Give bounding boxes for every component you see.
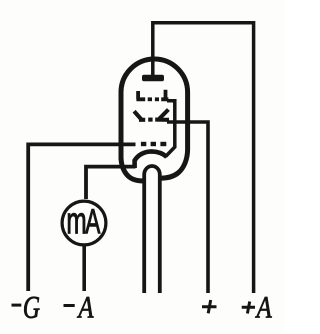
terminal label -G: [12, 297, 40, 318]
wire meter to -A terminal: [82, 246, 86, 291]
terminal label +: [202, 300, 217, 313]
milliammeter circle: [62, 201, 106, 245]
pinch dome and filament lead wires: [144, 166, 160, 293]
filament: [135, 151, 167, 168]
screen grid (dashed with diagonal ends): [134, 110, 169, 121]
wire control grid to -G terminal: [28, 144, 135, 291]
suppressor grid (dashed, up-ticks): [136, 90, 168, 100]
terminal label +A: [242, 297, 272, 318]
wire screen grid to + terminal: [167, 122, 208, 293]
anode plate: [142, 75, 164, 82]
control grid (dotted): [141, 142, 166, 146]
wire anode top: tube top to +A rail: [153, 23, 254, 293]
terminal label -A: [64, 297, 94, 318]
wire meter to filament: [86, 167, 136, 199]
tube envelope: [121, 59, 188, 181]
suppressor grid internal wire to filament: [166, 101, 175, 157]
mA meter label: [68, 209, 100, 233]
